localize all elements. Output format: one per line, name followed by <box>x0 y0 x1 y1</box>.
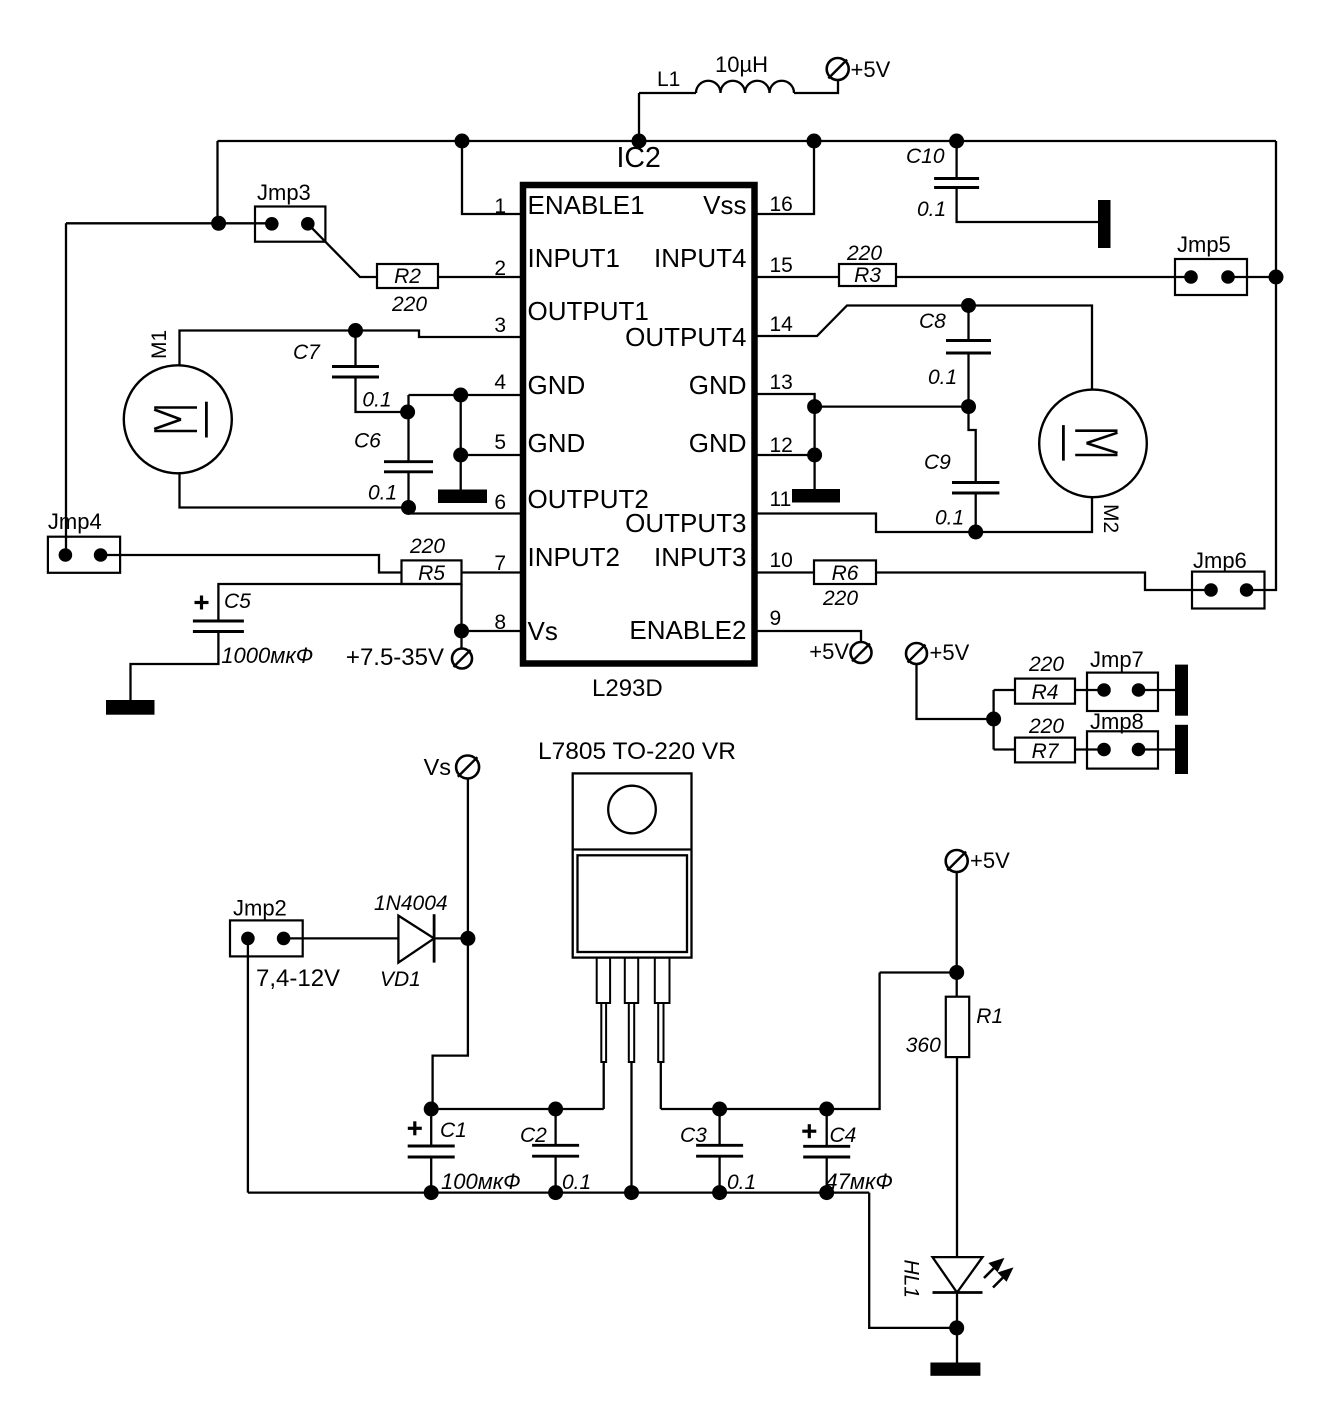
resistor R4 <box>1015 679 1075 704</box>
motor M2 circle <box>1039 390 1147 498</box>
svg-text:Jmp7: Jmp7 <box>1090 647 1144 672</box>
L7805 leg 2 <box>625 958 638 1003</box>
wire rail to pin 16 Vss <box>756 141 814 214</box>
svg-text:Vs: Vs <box>424 754 451 780</box>
svg-text:C1: C1 <box>440 1119 467 1142</box>
svg-text:C8: C8 <box>919 310 946 333</box>
svg-text:3: 3 <box>494 314 506 337</box>
wire R5 corner down to Vs node <box>460 584 462 649</box>
svg-text:Jmp4: Jmp4 <box>48 509 102 534</box>
svg-text:+5V: +5V <box>851 57 891 82</box>
junction C9 bottom <box>968 525 983 540</box>
junction C7 top <box>348 323 363 338</box>
jumper Jmp5 <box>1175 259 1247 295</box>
svg-text:0.1: 0.1 <box>928 366 957 389</box>
junction pin13 node <box>807 399 822 414</box>
capacitor C2 <box>532 1144 579 1147</box>
svg-text:GND: GND <box>689 370 747 400</box>
svg-text:1N4004: 1N4004 <box>374 892 448 915</box>
svg-text:Vss: Vss <box>703 190 746 220</box>
wire R7 to Jmp8 <box>1075 748 1104 750</box>
svg-text:12: 12 <box>770 434 793 457</box>
svg-text:10µH: 10µH <box>715 52 768 77</box>
junction R4/R7 split <box>986 712 1001 727</box>
wire +5V to R4/R7 split <box>917 664 994 719</box>
wire pin 8 stub <box>462 630 522 632</box>
wire pin 9 to +5V <box>756 631 861 642</box>
wire M1 top to pin 3 <box>180 331 522 366</box>
L7805 leg 1 <box>597 958 610 1003</box>
svg-text:R3: R3 <box>854 264 881 287</box>
svg-text:220: 220 <box>1028 715 1064 738</box>
wire +5V to R1 <box>956 872 958 997</box>
svg-text:R7: R7 <box>1032 740 1060 763</box>
junction VD1/Vs <box>460 931 475 946</box>
svg-text:GND: GND <box>689 428 747 458</box>
wire pin 11 to M2 bottom <box>756 497 1092 532</box>
svg-text:OUTPUT3: OUTPUT3 <box>625 508 746 538</box>
jumper Jmp3 <box>255 207 325 242</box>
wire rail to C10 <box>955 141 957 179</box>
svg-text:14: 14 <box>770 313 794 336</box>
svg-text:10: 10 <box>770 549 793 572</box>
ground (Jmp8) <box>1175 725 1188 774</box>
svg-text:C9: C9 <box>924 451 951 474</box>
wire gnd drop (pins 12-13) <box>813 407 815 489</box>
svg-text:C7: C7 <box>293 341 321 364</box>
wire pin 5 stub <box>461 454 521 456</box>
resistor R3 <box>839 264 896 286</box>
wire R1 node to cap rail <box>880 971 957 973</box>
jumper Jmp2 <box>230 920 303 956</box>
wire R2 to pin 2 <box>438 276 521 278</box>
svg-text:Jmp3: Jmp3 <box>257 180 311 205</box>
junction C1 bottom <box>424 1185 439 1200</box>
svg-text:M1: M1 <box>148 330 171 359</box>
svg-text:C3: C3 <box>680 1124 707 1147</box>
svg-text:L7805 TO-220 VR: L7805 TO-220 VR <box>538 738 736 765</box>
junction C7/C6 <box>400 405 415 420</box>
wire Jmp7 to ground <box>1139 689 1176 691</box>
wire C8/C9 link row <box>815 405 969 407</box>
svg-text:220: 220 <box>1028 653 1064 676</box>
junction C3 bottom <box>712 1185 727 1200</box>
svg-text:100мкФ: 100мкФ <box>441 1169 521 1194</box>
wire pin 14 to M2 top <box>756 306 1092 390</box>
wire L1 riser <box>638 93 640 141</box>
inductor L1 <box>794 81 838 93</box>
ground (HL1) <box>930 1363 980 1376</box>
svg-text:R6: R6 <box>832 562 859 585</box>
L7805 leg 3 <box>655 958 670 1003</box>
wire pin 6 step <box>409 508 522 514</box>
wire +5V top rail <box>218 140 1277 142</box>
wire right edge vertical <box>1247 141 1276 590</box>
wire rail to pin 1 <box>462 141 521 214</box>
svg-text:INPUT2: INPUT2 <box>528 542 620 572</box>
terminal +7.5-35V <box>452 649 472 669</box>
svg-text:Jmp6: Jmp6 <box>1193 548 1247 573</box>
junction C9 top <box>961 399 976 414</box>
junction C1 top <box>424 1102 439 1117</box>
wire R6 to Jmp6 <box>876 573 1211 591</box>
jumper Jmp6 <box>1192 572 1265 609</box>
svg-text:C5: C5 <box>224 590 251 613</box>
terminal Vs <box>456 756 479 779</box>
ground (C5) <box>106 700 155 715</box>
resistor R2 <box>377 264 438 288</box>
ground (pins 12-13) <box>792 489 840 503</box>
svg-text:HL1: HL1 <box>900 1260 923 1299</box>
svg-text:220: 220 <box>391 293 427 316</box>
wire C10 to ground <box>957 188 1098 223</box>
svg-text:GND: GND <box>528 428 586 458</box>
svg-text:C6: C6 <box>354 429 381 452</box>
capacitor C5 (electrolytic) <box>193 620 244 623</box>
diode VD1 <box>398 916 434 963</box>
junction C6 bottom <box>401 500 416 515</box>
svg-text:C10: C10 <box>906 145 945 168</box>
wire HL1 node to bottom rail <box>869 1193 957 1328</box>
svg-text:9: 9 <box>770 607 782 630</box>
svg-text:R2: R2 <box>394 265 421 288</box>
wire rail left drop to Jmp3 node <box>216 141 218 223</box>
junction rail/pin16 <box>807 134 822 149</box>
svg-text:L1: L1 <box>657 68 680 91</box>
resistor R7 <box>1015 738 1075 763</box>
junction C8 top <box>961 298 976 313</box>
junction HL1 bottom <box>949 1320 964 1335</box>
C4 plus sign <box>802 1130 816 1133</box>
wire pin 10 to R6 <box>756 571 814 573</box>
svg-text:15: 15 <box>770 254 793 277</box>
wire C6 top lead <box>407 395 409 462</box>
wire pin 13 <box>756 394 815 407</box>
svg-text:13: 13 <box>770 371 793 394</box>
junction rail/pin1 <box>455 134 470 149</box>
wire pin 4 row <box>409 394 522 396</box>
terminal +5V (L1) <box>827 58 849 80</box>
wire gnd drop (pins 4-5) <box>460 395 462 490</box>
jumper Jmp4 <box>48 537 120 573</box>
wire bottom ground rail <box>248 1191 869 1193</box>
svg-text:R1: R1 <box>976 1005 1003 1028</box>
svg-text:R5: R5 <box>418 562 445 585</box>
svg-text:5: 5 <box>494 431 506 454</box>
wire R1 to HL1 <box>956 1057 958 1257</box>
svg-text:+5V: +5V <box>809 639 849 664</box>
svg-text:C4: C4 <box>830 1124 857 1147</box>
capacitor C8 <box>946 339 991 342</box>
voltage regulator VR L7805 package <box>573 773 692 957</box>
svg-text:ENABLE2: ENABLE2 <box>629 615 746 645</box>
wire C5 to ground <box>131 632 219 701</box>
wire far-left drop to Jmp4 <box>65 223 67 555</box>
junction Jmp5/right rail <box>1269 270 1284 285</box>
junction rail/L1 <box>632 134 647 149</box>
wire Jmp2 to VD1 <box>284 937 399 939</box>
jumper Jmp7 <box>1087 673 1158 711</box>
terminal +5V (R1) <box>946 850 968 872</box>
svg-text:L293D: L293D <box>592 675 663 702</box>
wire pin 12 stub <box>756 454 815 456</box>
junction R1 top node <box>949 965 964 980</box>
svg-text:INPUT3: INPUT3 <box>654 542 746 572</box>
motor M1 symbol <box>154 406 197 409</box>
LED HL1 <box>933 1257 983 1292</box>
svg-text:R4: R4 <box>1032 681 1059 704</box>
terminal +5V (R4/R7) <box>906 643 927 664</box>
junction pin 8 node <box>454 624 469 639</box>
wire Jmp3 node row <box>66 222 272 224</box>
svg-text:0.1: 0.1 <box>562 1171 591 1194</box>
wire Jmp2 left drop <box>247 938 249 1192</box>
svg-text:OUTPUT4: OUTPUT4 <box>625 322 746 352</box>
junction C2 bottom <box>548 1185 563 1200</box>
svg-text:16: 16 <box>770 193 793 216</box>
svg-text:4: 4 <box>494 371 506 394</box>
wire output cap rail <box>661 973 880 1110</box>
svg-text:Jmp5: Jmp5 <box>1177 232 1231 257</box>
wire input cap rail <box>431 1108 604 1110</box>
svg-text:INPUT4: INPUT4 <box>654 243 746 273</box>
svg-text:INPUT1: INPUT1 <box>528 243 620 273</box>
svg-text:220: 220 <box>846 242 882 265</box>
svg-text:7,4-12V: 7,4-12V <box>256 965 340 992</box>
svg-text:Jmp2: Jmp2 <box>233 896 287 921</box>
junction C4 top <box>819 1102 834 1117</box>
junction C3 top <box>712 1102 727 1117</box>
HL1 light arrows <box>984 1260 1011 1288</box>
svg-text:+5V: +5V <box>970 848 1010 873</box>
junction L7805 gnd leg <box>624 1185 639 1200</box>
svg-text:C2: C2 <box>520 1124 547 1147</box>
ground (C10) <box>1098 200 1111 248</box>
wire C7 top lead <box>354 331 356 367</box>
svg-text:+7.5-35V: +7.5-35V <box>346 644 444 671</box>
svg-text:0.1: 0.1 <box>362 389 391 412</box>
op-amp driver IC IC2 L293D chip body <box>523 185 755 664</box>
junction Jmp3 node <box>211 216 226 231</box>
C1 plus sign <box>408 1127 422 1130</box>
capacitor C10 <box>934 177 979 180</box>
svg-text:+5V: +5V <box>930 640 970 665</box>
ground (Jmp7) <box>1175 665 1188 716</box>
wire Jmp3 diagonal to R2 <box>308 224 377 277</box>
svg-text:GND: GND <box>528 370 586 400</box>
ground (pins 4-5) <box>438 490 487 504</box>
svg-text:Jmp8: Jmp8 <box>1090 709 1144 734</box>
wire R4 to Jmp7 <box>1075 689 1104 691</box>
capacitor C1 (electrolytic) <box>408 1145 455 1148</box>
wire Vs vertical to C1 <box>433 779 468 1110</box>
junction pin4/gnd drop <box>453 388 468 403</box>
svg-text:220: 220 <box>409 535 445 558</box>
wire Jmp4 to R5 <box>101 555 402 573</box>
jumper Jmp8 <box>1087 731 1158 768</box>
svg-text:0.1: 0.1 <box>935 507 964 530</box>
svg-text:11: 11 <box>770 488 792 511</box>
wire HL1 to ground <box>956 1293 958 1363</box>
junction C4 bottom <box>819 1185 834 1200</box>
resistor R1 <box>946 997 969 1057</box>
svg-text:0.1: 0.1 <box>917 198 946 221</box>
capacitor C3 <box>696 1144 743 1147</box>
svg-text:ENABLE1: ENABLE1 <box>528 190 645 220</box>
resistor R5 <box>402 560 462 584</box>
wire Jmp8 to ground <box>1139 748 1176 750</box>
capacitor C9 leads <box>969 407 976 483</box>
wire C7 bottom lead <box>356 377 408 412</box>
wire R3 to Jmp5 <box>896 276 1191 278</box>
terminal +5V (pin 9) <box>851 642 872 663</box>
junction pin5/gnd drop <box>453 448 468 463</box>
wire R5 to pin 7 <box>462 571 522 573</box>
svg-text:VD1: VD1 <box>380 968 421 991</box>
svg-text:220: 220 <box>822 587 858 610</box>
svg-text:0.1: 0.1 <box>727 1171 756 1194</box>
motor M2 symbol <box>1075 429 1117 432</box>
svg-text:1000мкФ: 1000мкФ <box>221 643 313 668</box>
capacitor C7 <box>332 365 379 368</box>
wire C6 bottom lead <box>407 472 409 508</box>
junction C2 top <box>548 1102 563 1117</box>
wire Jmp5 to right rail <box>1228 276 1276 278</box>
capacitor C6 <box>384 460 433 463</box>
C5 plus sign <box>195 601 209 604</box>
junction rail/C10 <box>949 134 964 149</box>
wire pin 15 to R3 <box>756 276 839 278</box>
wire C5 top rail <box>218 584 461 621</box>
svg-text:Vs: Vs <box>528 616 558 646</box>
svg-text:360: 360 <box>906 1034 941 1057</box>
wire M1 bottom to pin 6 <box>180 473 409 508</box>
junction pin12 <box>807 448 822 463</box>
capacitor C4 (electrolytic) <box>803 1145 850 1148</box>
svg-text:6: 6 <box>494 491 506 514</box>
motor M1 circle <box>124 365 232 473</box>
capacitor C9 <box>952 481 999 484</box>
resistor R6 <box>814 560 876 584</box>
svg-text:47мкФ: 47мкФ <box>825 1169 892 1194</box>
svg-text:M2: M2 <box>1099 504 1122 533</box>
svg-text:0.1: 0.1 <box>368 482 397 505</box>
